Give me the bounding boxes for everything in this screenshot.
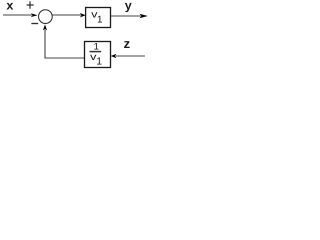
- svg-text:1: 1: [97, 15, 102, 26]
- arrowhead into block 1/V1 from z: [111, 54, 117, 58]
- fraction bar: [90, 51, 102, 53]
- svg-text:y: y: [125, 0, 132, 13]
- wire summer to block V1: [52, 14, 81, 16]
- svg-text:x: x: [6, 0, 13, 13]
- block V1: [86, 8, 111, 28]
- summing junction: [39, 10, 53, 24]
- plus sign: [27, 1, 34, 9]
- wire z input: [115, 55, 144, 57]
- svg-text:1: 1: [96, 57, 102, 68]
- wire feedback horizontal: [44, 57, 84, 59]
- arrowhead into summer: [31, 13, 38, 17]
- minus sign: [31, 23, 38, 25]
- background: [0, 0, 166, 70]
- block 1/V1: [85, 42, 111, 68]
- wire x input: [3, 14, 32, 16]
- wire feedback vertical: [44, 30, 46, 59]
- feedback arrowhead up into summer: [43, 24, 47, 30]
- wire block V1 to output y: [111, 15, 142, 17]
- svg-text:z: z: [124, 36, 131, 51]
- output arrowhead y: [139, 14, 147, 18]
- arrowhead into block V1: [80, 13, 86, 17]
